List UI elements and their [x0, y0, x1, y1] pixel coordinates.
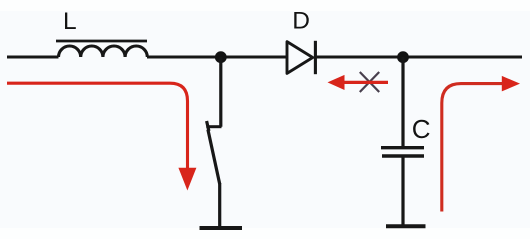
wire: left input lead — [7, 56, 59, 59]
wire: diode to right edge (through node B) — [315, 56, 522, 59]
red output current arrow (up from capacitor, curving right) — [442, 76, 520, 212]
switch: fixed contact jog and pivot nub — [206, 121, 221, 131]
capacitor C (two plates) — [381, 148, 424, 156]
red input current arrow (left, curving down through switch) — [7, 83, 196, 190]
wire: node B down to capacitor — [401, 57, 404, 146]
diode D (anode triangle + cathode bar) — [287, 41, 315, 74]
wire: inductor to diode (through node A) — [147, 56, 287, 59]
inductor L (core bar + 4 winding humps) — [56, 41, 147, 57]
switch: open blade (angled) — [208, 130, 220, 185]
label C — [412, 114, 431, 144]
ground bar (switch bottom terminal) — [200, 226, 243, 230]
label L — [63, 8, 77, 35]
label D — [292, 8, 310, 35]
svg-text:D: D — [292, 8, 310, 35]
ground bar (capacitor bottom terminal) — [386, 224, 426, 228]
node B (junction of diode, capacitor, output) — [397, 51, 409, 63]
X mark (current blocked by diode) — [360, 72, 379, 92]
red blocked reverse-current arrow (points left into diode) — [328, 75, 389, 90]
switch: lower lead — [218, 183, 221, 227]
svg-text:L: L — [63, 8, 77, 35]
svg-text:C: C — [412, 114, 431, 144]
wire: capacitor lower lead — [401, 157, 404, 226]
switch (open): upper lead from node A — [219, 57, 222, 127]
node A (junction of inductor, switch, diode) — [215, 51, 227, 63]
